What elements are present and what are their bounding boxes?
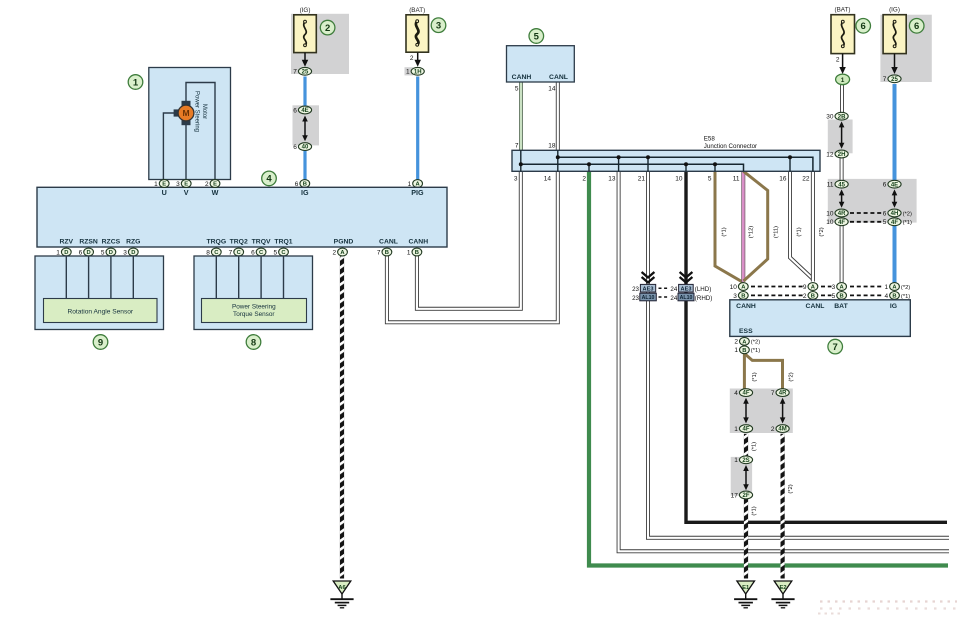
dashes 4R to 4H xyxy=(850,212,883,214)
svg-text:1: 1 xyxy=(133,77,139,88)
svg-text:BAT: BAT xyxy=(834,303,848,310)
svg-text:CANH: CANH xyxy=(408,239,428,246)
svg-text:3: 3 xyxy=(832,284,836,291)
wire striped connector 4M to ground E2 xyxy=(780,434,784,579)
svg-text:1: 1 xyxy=(407,249,411,256)
svg-text:V: V xyxy=(184,188,189,197)
svg-text:7: 7 xyxy=(293,69,297,76)
arrow between 45 and 4R xyxy=(839,189,845,207)
svg-text:5: 5 xyxy=(101,249,105,256)
svg-text:CANL: CANL xyxy=(379,239,398,246)
arrow between 4R and 2(4M) xyxy=(780,398,786,424)
pin 3(A) BAT ESS xyxy=(832,283,847,291)
svg-text:7: 7 xyxy=(229,249,233,256)
svg-text:(*12): (*12) xyxy=(749,226,755,239)
wire blue fuse3 to box4 PIG xyxy=(416,77,419,185)
arrow between 4E and 40 xyxy=(302,116,308,142)
svg-text:16: 16 xyxy=(779,176,787,183)
svg-text:8: 8 xyxy=(251,337,256,348)
callout circle 6 IG xyxy=(909,19,924,34)
svg-text:2B: 2B xyxy=(838,114,846,120)
connector 6(40) xyxy=(293,143,311,151)
svg-text:1: 1 xyxy=(734,457,738,464)
svg-text:B: B xyxy=(840,294,844,300)
svg-text:5: 5 xyxy=(708,176,712,183)
ground E2 xyxy=(771,581,794,608)
svg-text:1: 1 xyxy=(154,181,158,188)
callout circle 9 xyxy=(93,335,108,350)
svg-text:B: B xyxy=(811,294,815,300)
callout circle 6 BAT xyxy=(856,19,871,34)
connector 2(4M) xyxy=(771,425,789,433)
label power steering motor (rotated) xyxy=(194,91,208,132)
svg-text:10: 10 xyxy=(826,210,834,217)
pin 1(B)(*1) ESS bottom xyxy=(734,346,760,354)
pin 10(A) CANH ESS xyxy=(730,283,749,291)
svg-text:5: 5 xyxy=(273,249,277,256)
svg-text:Rotation Angle Sensor: Rotation Angle Sensor xyxy=(67,309,133,316)
svg-text:AL10: AL10 xyxy=(680,295,693,301)
svg-text:(BAT): (BAT) xyxy=(835,7,851,14)
svg-text:(*1): (*1) xyxy=(797,227,803,236)
svg-text:6: 6 xyxy=(883,182,887,189)
chevron connector on white wire xyxy=(642,272,655,283)
svg-text:(*2): (*2) xyxy=(788,484,794,493)
wire white CANL comp5 to E58 pin18 xyxy=(556,82,560,150)
svg-text:22: 22 xyxy=(802,176,810,183)
wire white BAT fuse6 to connector 2B xyxy=(840,85,844,119)
svg-text:23: 23 xyxy=(632,286,639,293)
svg-text:4F: 4F xyxy=(742,427,749,433)
wire brown ESS pin1B split xyxy=(743,354,746,389)
svg-text:4: 4 xyxy=(266,174,272,185)
pin 3(B) CANH ESS xyxy=(733,292,748,300)
svg-text:6: 6 xyxy=(293,107,297,114)
svg-text:CANL: CANL xyxy=(806,303,825,310)
svg-text:RZV: RZV xyxy=(59,239,73,246)
svg-text:12: 12 xyxy=(826,151,834,158)
svg-text:6: 6 xyxy=(861,21,866,32)
svg-text:B: B xyxy=(742,348,746,354)
label (*2) white pin22 xyxy=(819,227,825,236)
svg-text:Torque Sensor: Torque Sensor xyxy=(233,311,275,318)
svg-text:(*2): (*2) xyxy=(903,211,912,217)
dashes 4F to 4F xyxy=(850,221,883,223)
wire blue connector 4F to ESS IG xyxy=(893,220,897,283)
label (*1) above 2S xyxy=(752,442,758,451)
svg-text:7: 7 xyxy=(771,390,775,397)
wire white E58 pin22 to ESS CANL xyxy=(811,171,815,281)
pin 9(A) CANL ESS xyxy=(803,283,818,291)
wire blue connector 40 to box4 IG xyxy=(303,144,306,184)
svg-text:2: 2 xyxy=(325,23,330,34)
svg-text:2: 2 xyxy=(771,426,775,433)
svg-text:2H: 2H xyxy=(838,152,846,158)
component box 4 power steering ECU xyxy=(37,187,447,247)
arrow between 2S and 2F xyxy=(743,465,749,490)
fuse F3 xyxy=(406,15,429,52)
svg-text:3: 3 xyxy=(436,21,441,32)
svg-text:TRQ2: TRQ2 xyxy=(230,239,248,246)
svg-text:TRQ1: TRQ1 xyxy=(274,239,292,246)
component box 8 xyxy=(194,256,313,330)
callout circle 2 xyxy=(320,20,335,35)
arrow fuse2 to connector 25 xyxy=(302,53,309,67)
svg-text:AL10: AL10 xyxy=(642,295,655,301)
svg-text:Power Steering: Power Steering xyxy=(194,91,200,132)
callout circle 1 xyxy=(128,75,143,90)
svg-text:11: 11 xyxy=(733,176,740,183)
connector 1(2S) xyxy=(734,456,752,464)
gray panel connector 2B/2H xyxy=(828,120,853,154)
wire white E58 pin16 to ESS CANL xyxy=(790,171,813,279)
svg-text:5: 5 xyxy=(515,86,519,93)
label (*12) pink pin11 xyxy=(749,226,755,239)
svg-text:TRQV: TRQV xyxy=(252,239,271,246)
svg-text:D: D xyxy=(64,250,68,256)
svg-text:B: B xyxy=(741,294,745,300)
svg-text:2: 2 xyxy=(803,293,807,300)
svg-text:4F: 4F xyxy=(891,220,898,226)
junction connector E58 box xyxy=(512,150,820,171)
svg-text:4E: 4E xyxy=(301,108,308,114)
component box 1 power steering motor xyxy=(149,68,231,180)
connector 6(4E) right xyxy=(883,180,901,188)
gray panel connector 45/4R/4E/4H xyxy=(828,179,917,223)
wire white CANH box4 to E58 pin3 xyxy=(417,171,521,308)
svg-text:45: 45 xyxy=(838,182,845,188)
svg-text:(*1): (*1) xyxy=(751,348,760,354)
label (*2) right striped wire xyxy=(788,484,794,493)
svg-text:4F: 4F xyxy=(742,391,749,397)
callout circle 8 xyxy=(246,335,261,350)
svg-text:B: B xyxy=(385,250,389,256)
svg-text:E: E xyxy=(184,182,188,188)
arrow between 4F and 1(4F) xyxy=(743,398,749,424)
svg-text:(BAT): (BAT) xyxy=(409,7,425,14)
svg-text:RZSN: RZSN xyxy=(79,239,98,246)
svg-text:7: 7 xyxy=(883,76,887,83)
svg-text:4F: 4F xyxy=(838,220,845,226)
svg-text:(IG): (IG) xyxy=(889,7,900,14)
svg-text:6: 6 xyxy=(293,144,297,151)
svg-text:(LHD): (LHD) xyxy=(695,286,712,293)
pin 1(A) PIG box4 xyxy=(408,180,423,188)
svg-text:4R: 4R xyxy=(838,211,846,217)
svg-text:6: 6 xyxy=(251,249,255,256)
callout circle 3 xyxy=(431,18,446,33)
svg-text:5: 5 xyxy=(832,293,836,300)
pin 5(C) xyxy=(273,248,288,256)
svg-text:IG: IG xyxy=(301,188,309,197)
svg-text:1: 1 xyxy=(406,69,410,76)
svg-text:1H: 1H xyxy=(414,69,422,75)
svg-text:(*2): (*2) xyxy=(819,227,825,236)
svg-text:E58: E58 xyxy=(704,136,716,143)
wire blue fuse2 to connector 4E xyxy=(303,77,306,113)
svg-text:U: U xyxy=(162,188,167,197)
svg-text:D: D xyxy=(87,250,91,256)
svg-text:2: 2 xyxy=(410,55,414,62)
svg-text:PIG: PIG xyxy=(411,188,424,197)
svg-text:1: 1 xyxy=(734,347,738,354)
connector 7(25) xyxy=(293,67,311,75)
wire white connector 2H to connector 45 xyxy=(840,151,844,186)
svg-text:9: 9 xyxy=(803,284,807,291)
svg-text:B: B xyxy=(892,294,896,300)
svg-text:4: 4 xyxy=(884,293,888,300)
svg-text:(*1): (*1) xyxy=(752,442,758,451)
wire striped PGND box4 to ground A6 xyxy=(340,257,344,579)
connector (1) green xyxy=(836,74,850,85)
svg-text:CANH: CANH xyxy=(512,74,532,81)
svg-text:10: 10 xyxy=(826,219,834,226)
svg-text:2: 2 xyxy=(734,339,738,346)
connector 10(4R) xyxy=(826,209,848,217)
svg-text:M: M xyxy=(182,108,189,118)
label (*1) below 2F xyxy=(752,506,758,515)
power steering torque sensor inner box xyxy=(202,299,307,323)
arrow fuse3 to connector 1H xyxy=(414,53,421,67)
svg-text:1: 1 xyxy=(734,426,738,433)
E58 internal bus lower xyxy=(521,164,744,171)
svg-text:Motor: Motor xyxy=(201,104,207,119)
motor M1 symbol xyxy=(174,101,194,125)
svg-text:21: 21 xyxy=(638,176,646,183)
pin 3(D) xyxy=(123,248,138,256)
svg-text:RZCS: RZCS xyxy=(102,239,121,246)
gray panel connector 4E/40 xyxy=(293,105,320,145)
label (*2) right brown branch xyxy=(789,372,795,381)
svg-text:6: 6 xyxy=(914,21,919,32)
pin 7(B) CANL xyxy=(377,248,392,256)
wire black pin10 E58 through AE3/AL10 to right edge xyxy=(686,171,947,522)
svg-text:7: 7 xyxy=(515,143,519,150)
connector 30(2B) xyxy=(826,112,848,120)
wire motor V xyxy=(185,123,187,183)
ground E1 xyxy=(734,581,757,608)
svg-text:(IG): (IG) xyxy=(300,7,311,14)
svg-text:4M: 4M xyxy=(778,427,786,433)
wire striped connector 4F to connector 2S xyxy=(744,434,748,456)
arrow between 2B and 2H xyxy=(839,121,845,148)
svg-text:3: 3 xyxy=(176,181,180,188)
pin 2(B) CANL ESS xyxy=(803,292,818,300)
dashes ESS row B xyxy=(751,294,803,296)
svg-text:(*1): (*1) xyxy=(752,372,758,381)
gray panel behind IG fuse 6 xyxy=(880,15,931,82)
svg-text:9: 9 xyxy=(98,337,103,348)
svg-text:14: 14 xyxy=(544,176,552,183)
svg-text:17: 17 xyxy=(731,492,739,499)
connector row AE3 (LHD) xyxy=(632,284,711,292)
svg-text:ESS: ESS xyxy=(739,328,753,335)
pin 2(A) PGND xyxy=(332,248,347,256)
svg-text:2: 2 xyxy=(332,249,336,256)
faint watermark dots bottom right xyxy=(820,600,957,602)
wire brown E58 pin11 branch to ESS CANH xyxy=(744,171,768,281)
svg-text:25: 25 xyxy=(891,77,898,83)
E58 internal bus upper xyxy=(558,157,813,171)
connector 4(4F) xyxy=(734,389,752,397)
svg-text:30: 30 xyxy=(826,114,834,121)
connector 1(4F) xyxy=(734,425,752,433)
svg-text:24: 24 xyxy=(670,295,677,302)
connector 6(4E) xyxy=(293,106,311,114)
label (*1) brown pin5 xyxy=(722,227,728,236)
label (*1) white pin16 xyxy=(797,227,803,236)
fuse F2 xyxy=(294,15,317,53)
gray panel connector 2S/2F xyxy=(731,457,752,496)
component box 7 ESS xyxy=(730,300,911,337)
svg-text:IG: IG xyxy=(890,303,897,310)
connector 5(4F)(*1) xyxy=(883,218,912,226)
connector 7(25) right xyxy=(883,75,901,83)
arrow between 4E and 4H xyxy=(892,189,898,207)
wire brown E58 pin5 to ESS CANH xyxy=(715,171,743,282)
svg-text:40: 40 xyxy=(302,145,309,151)
wire blue IG fuse6 to connector 4E xyxy=(893,84,897,186)
connector 12(2H) xyxy=(826,150,848,158)
gray panel behind fuse 2 xyxy=(291,14,349,74)
svg-text:2: 2 xyxy=(836,57,840,64)
E58 junction dots xyxy=(556,155,560,159)
svg-text:1: 1 xyxy=(56,249,60,256)
pin 4(B)(*1) IG ESS xyxy=(884,292,910,300)
svg-text:AE3: AE3 xyxy=(681,286,692,292)
svg-text:Junction Connector: Junction Connector xyxy=(704,143,757,150)
svg-text:4: 4 xyxy=(734,390,738,397)
pin 1(B) CANH xyxy=(407,248,422,256)
arrow IG fuse to connector 25 xyxy=(891,54,898,74)
pin 8(C) xyxy=(206,248,221,256)
svg-text:13: 13 xyxy=(608,176,616,183)
svg-text:AE3: AE3 xyxy=(643,286,654,292)
wire pale-green CANH comp5 to E58 pin7 xyxy=(519,82,523,150)
connector 11(45) xyxy=(827,180,848,188)
svg-text:B: B xyxy=(415,250,419,256)
ground A6 xyxy=(330,581,353,608)
svg-text:23: 23 xyxy=(632,295,639,302)
pin 5(D) xyxy=(101,248,116,256)
svg-text:14: 14 xyxy=(548,86,556,93)
wire white CANL box4 to E58 pin14 xyxy=(387,171,558,322)
arrow BAT fuse to connector 1 xyxy=(839,54,846,74)
svg-text:(RHD): (RHD) xyxy=(695,295,713,302)
dashes ESS row A xyxy=(751,286,803,288)
svg-text:W: W xyxy=(212,188,219,197)
connector 17(2F) xyxy=(731,491,753,499)
svg-text:10: 10 xyxy=(675,176,683,183)
svg-text:E: E xyxy=(213,182,217,188)
svg-text:8: 8 xyxy=(206,249,210,256)
connector 7(4R) xyxy=(771,389,789,397)
svg-text:7: 7 xyxy=(833,342,838,353)
wire pink E58 pin11 to ESS CANH xyxy=(741,171,745,281)
svg-text:3: 3 xyxy=(123,249,127,256)
callout circle 5 xyxy=(529,29,544,44)
pin 7(C) xyxy=(229,248,244,256)
pin 2(A)(*2) ESS bottom xyxy=(734,337,760,345)
svg-text:D: D xyxy=(109,250,113,256)
svg-text:(*1): (*1) xyxy=(722,227,728,236)
svg-text:(*2): (*2) xyxy=(789,372,795,381)
pin 6(B) IG box4 xyxy=(295,180,310,188)
wire green pin2 E58 to right edge xyxy=(589,171,948,565)
svg-text:E1: E1 xyxy=(742,585,750,591)
svg-text:4E: 4E xyxy=(891,182,898,188)
rotation angle sensor inner box xyxy=(44,299,158,323)
svg-text:CANH: CANH xyxy=(736,303,756,310)
svg-text:CANL: CANL xyxy=(549,74,568,81)
pin 1(E) xyxy=(154,180,169,188)
svg-text:(*2): (*2) xyxy=(901,285,910,291)
svg-text:25: 25 xyxy=(302,69,309,75)
chevron connector on black wire xyxy=(680,272,693,283)
svg-text:E2: E2 xyxy=(779,585,786,591)
svg-text:(*1): (*1) xyxy=(752,506,758,515)
svg-text:D: D xyxy=(131,250,135,256)
svg-text:PGND: PGND xyxy=(334,239,354,246)
svg-text:(*11): (*11) xyxy=(774,226,780,238)
svg-text:2: 2 xyxy=(582,176,586,183)
svg-text:5: 5 xyxy=(883,219,887,226)
svg-text:2: 2 xyxy=(205,181,209,188)
pin 1(A)(*2) IG ESS xyxy=(884,283,910,291)
callout circle 4 xyxy=(262,171,277,186)
svg-text:11: 11 xyxy=(827,182,834,189)
svg-text:24: 24 xyxy=(670,286,677,293)
svg-text:1: 1 xyxy=(884,284,888,291)
svg-text:(*1): (*1) xyxy=(903,220,912,226)
svg-text:6: 6 xyxy=(79,249,83,256)
callout circle 7 xyxy=(828,339,843,354)
svg-text:TRQG: TRQG xyxy=(206,239,226,246)
svg-text:2S: 2S xyxy=(742,458,749,464)
label (*1) left brown branch xyxy=(752,372,758,381)
svg-text:7: 7 xyxy=(377,249,381,256)
pin 3(E) xyxy=(176,180,191,188)
svg-text:A6: A6 xyxy=(338,585,346,591)
pin 6(D) xyxy=(79,248,94,256)
component box 9 xyxy=(35,256,164,330)
connector 1(1H) xyxy=(406,67,424,75)
svg-text:18: 18 xyxy=(548,143,556,150)
pin 5(B) BAT ESS xyxy=(832,292,847,300)
svg-text:RZG: RZG xyxy=(126,239,140,246)
gray panel connector 4F/4R/4M block xyxy=(730,389,793,434)
svg-text:3: 3 xyxy=(514,176,518,183)
wire motor W xyxy=(186,83,215,184)
fuse F6 BAT xyxy=(831,15,855,54)
gray panel behind 1H number xyxy=(405,67,414,75)
fuse F6 IG xyxy=(883,15,906,54)
component box 5 xyxy=(507,46,575,82)
connector 6(4H)(*2) xyxy=(883,209,912,217)
svg-text:3: 3 xyxy=(733,293,737,300)
svg-text:4H: 4H xyxy=(891,211,899,217)
svg-text:1: 1 xyxy=(841,77,845,84)
wire white pin21 E58 through AE3/AL10 to right edge xyxy=(648,171,949,538)
connector 10(4F) xyxy=(826,218,848,226)
pin 2(E) xyxy=(205,180,220,188)
svg-text:E: E xyxy=(162,182,166,188)
svg-text:(*2): (*2) xyxy=(751,340,760,346)
connector row AL10 (RHD) xyxy=(632,293,712,302)
wire white connector 4F to ESS BAT xyxy=(840,220,844,283)
svg-text:Power Steering: Power Steering xyxy=(232,303,276,310)
svg-text:6: 6 xyxy=(883,210,887,217)
